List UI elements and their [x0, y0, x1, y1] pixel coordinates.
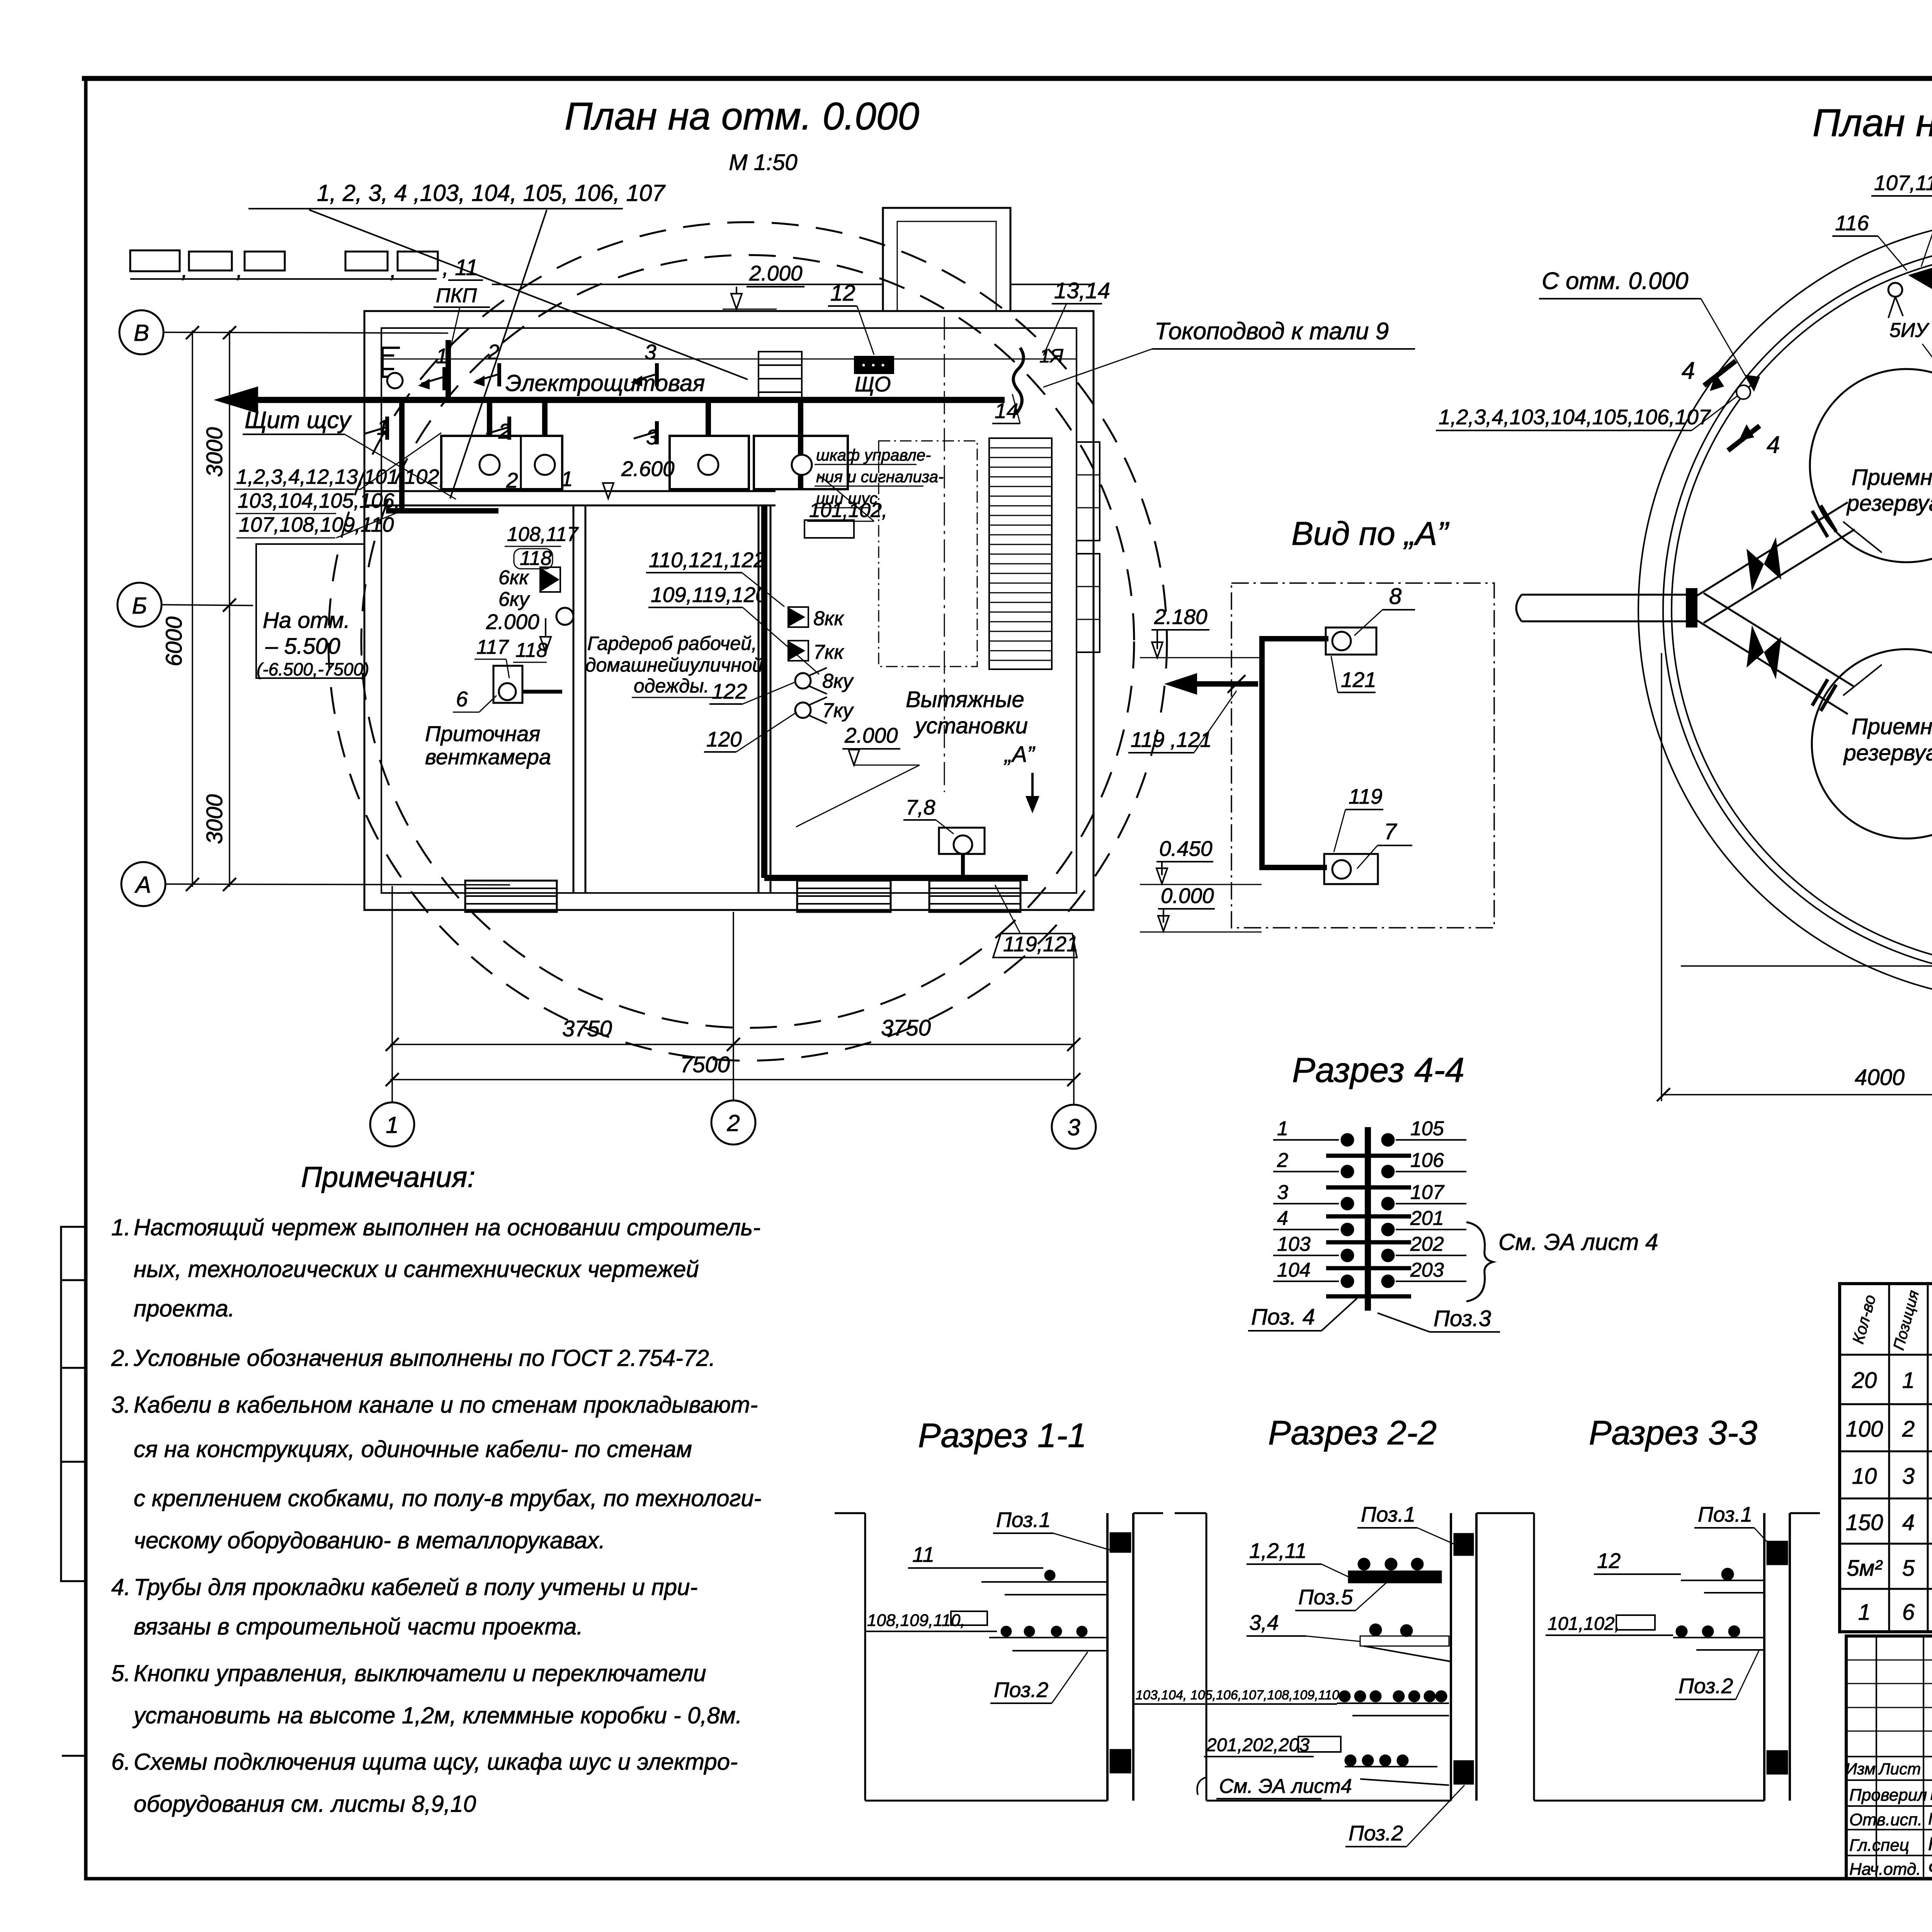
svg-text:6000: 6000 — [162, 616, 187, 666]
svg-text:2: 2 — [726, 1110, 740, 1136]
section 3-3 shelf 2 — [1673, 1637, 1764, 1638]
label ShchO panel — [855, 357, 893, 373]
svg-text:Настоящий чертеж выполнен на: Настоящий чертеж выполнен на основании с… — [134, 1214, 760, 1240]
svg-text:11: 11 — [912, 1543, 934, 1566]
svg-text:12: 12 — [1597, 1549, 1621, 1573]
flag symbols top — [1908, 267, 1932, 289]
valve to reservoir I — [1747, 537, 1781, 591]
section 1-1 wall double — [1106, 1513, 1109, 1801]
centre dash-dot line — [944, 317, 945, 792]
svg-text:4: 4 — [1767, 432, 1780, 458]
interior wall horizontal — [364, 490, 776, 492]
tray leader line — [130, 278, 437, 280]
svg-text:5: 5 — [1902, 1556, 1915, 1581]
svg-text:Щит щсу: Щит щсу — [245, 407, 352, 434]
flex conduit squiggle — [1014, 348, 1024, 413]
interior wall vertical 2 — [758, 505, 760, 893]
reservoir II circle — [1812, 649, 1932, 838]
svg-text:3,4: 3,4 — [1249, 1611, 1279, 1634]
tank ring circle — [1663, 243, 1932, 977]
svg-text:Отв.исп.: Отв.исп. — [1849, 1810, 1922, 1829]
svg-text:Фролов: Фролов — [1928, 1858, 1932, 1878]
svg-text:3: 3 — [1277, 1181, 1288, 1204]
cabinet ShUS — [754, 436, 848, 489]
svg-text:2.: 2. — [111, 1345, 131, 1371]
svg-text:121: 121 — [1341, 668, 1376, 692]
svg-text:116: 116 — [1835, 211, 1869, 235]
svg-text:10: 10 — [1852, 1464, 1877, 1489]
bottom wall window 3 — [929, 881, 1020, 912]
svg-text:В: В — [134, 320, 149, 346]
svg-text:107,116: 107,116 — [1874, 171, 1932, 195]
building outer wall — [364, 311, 1094, 910]
svg-text:Электрощитовая: Электрощитовая — [505, 370, 705, 396]
svg-text:Проверил: Проверил — [1849, 1786, 1927, 1804]
svg-text:домашнейиуличной: домашнейиуличной — [585, 654, 763, 676]
svg-text:2: 2 — [1902, 1417, 1915, 1442]
svg-text:ческому оборудованию- в мет: ческому оборудованию- в металлорукавах. — [134, 1527, 605, 1553]
svg-text:107,108,109,110: 107,108,109,110 — [239, 513, 394, 536]
svg-text:ных, технологических и сантехн: ных, технологических и сантехнических че… — [134, 1256, 699, 1282]
cable riser left down — [399, 403, 405, 511]
svg-text:203: 203 — [1410, 1259, 1444, 1281]
svg-text:1: 1 — [386, 1112, 398, 1138]
svg-text:20: 20 — [1852, 1368, 1877, 1393]
branch cross pipe 1 — [1843, 522, 1882, 553]
svg-text:4.: 4. — [111, 1574, 131, 1600]
section 1-1 shelf 1 — [981, 1581, 1107, 1583]
svg-text:4: 4 — [1682, 357, 1695, 384]
svg-text:вязаны в строительной части: вязаны в строительной части проекта. — [134, 1614, 583, 1639]
bottom wall window 2 — [797, 881, 891, 912]
interior wall vertical 1 — [573, 505, 575, 893]
svg-text:М 1:50: М 1:50 — [729, 150, 797, 175]
section 1-1 trench outline — [835, 1512, 865, 1514]
svg-text:Казаров: Казаров — [1928, 1834, 1932, 1854]
svg-text:Изм: Изм — [1845, 1760, 1876, 1778]
cable lower horizontal — [386, 508, 498, 514]
svg-text:План на отм.– 5.500 (-6.500,-7: План на отм.– 5.500 (-6.500,-7.500). — [1813, 101, 1932, 145]
inlet flange — [1687, 589, 1697, 627]
svg-text:1, 2, 3, 4 ,103, 104, 105, 106: 1, 2, 3, 4 ,103, 104, 105, 106, 107 — [317, 180, 666, 206]
svg-text:Вытяжные: Вытяжные — [906, 687, 1024, 712]
top wall band lines — [492, 284, 883, 285]
svg-text:1Я: 1Я — [1039, 345, 1064, 367]
arrow down A — [1031, 773, 1034, 806]
svg-text:Лист: Лист — [1878, 1760, 1921, 1778]
svg-text:7500: 7500 — [680, 1052, 730, 1077]
svg-text:Поз.1: Поз.1 — [996, 1508, 1051, 1532]
svg-text:установить на высоте 1,2м,: установить на высоте 1,2м, клеммные коро… — [132, 1702, 742, 1728]
svg-text:1: 1 — [436, 344, 448, 368]
tank outer circle — [1638, 218, 1932, 1002]
svg-text:Приемный: Приемный — [1852, 714, 1932, 739]
svg-text:201: 201 — [1410, 1207, 1444, 1230]
cable trays row top — [130, 250, 180, 271]
svg-text:6: 6 — [1902, 1600, 1915, 1625]
svg-text:106: 106 — [1410, 1149, 1444, 1172]
flange res II — [1812, 679, 1828, 706]
left plan dashed tank circle outer — [328, 222, 1167, 1061]
svg-text:103,104,105,106,: 103,104,105,106, — [238, 489, 400, 512]
svg-text:ния и сигнализа-: ния и сигнализа- — [816, 468, 944, 486]
svg-text:Кнопки управления, выключател: Кнопки управления, выключатели и переклю… — [134, 1660, 706, 1686]
vertical dim line inner 3000 — [229, 330, 230, 887]
section 3-3 wall blocks — [1767, 1541, 1788, 1565]
section 4-4 central bar — [1365, 1127, 1371, 1311]
stairwell platform dash-dot — [879, 441, 977, 667]
svg-text:101,102,: 101,102, — [809, 499, 887, 522]
bottom wall window 1 — [465, 881, 557, 912]
svg-text:7ку: 7ку — [822, 699, 854, 722]
svg-text:6кк: 6кк — [498, 566, 529, 589]
svg-text:201,202,203: 201,202,203 — [1206, 1735, 1310, 1755]
svg-text:С отм. 0.000: С отм. 0.000 — [1542, 268, 1689, 294]
cable riser to box 1 — [542, 403, 548, 436]
svg-text:Поз.5: Поз.5 — [1298, 1585, 1353, 1609]
svg-text:1: 1 — [1277, 1117, 1288, 1140]
wall device E symbol — [383, 348, 400, 377]
svg-text:100: 100 — [1846, 1417, 1883, 1442]
branch pipe to reservoir I — [1697, 502, 1848, 596]
right wall window — [1077, 554, 1100, 652]
axis circle B left — [117, 583, 162, 627]
switch symbols 8kk 7kk — [789, 608, 805, 626]
svg-text:8кк: 8кк — [813, 607, 844, 630]
svg-text:120: 120 — [706, 727, 742, 751]
svg-text:12: 12 — [830, 281, 855, 306]
section 2-2 outline — [1175, 1512, 1206, 1514]
svg-text:Трубы для прокладки кабелей: Трубы для прокладки кабелей в полу учтен… — [134, 1574, 697, 1600]
bottom axis circle 3 — [1052, 1105, 1096, 1149]
svg-text:Разрез 3-3: Разрез 3-3 — [1589, 1413, 1757, 1452]
svg-text:8: 8 — [1389, 584, 1401, 609]
section 3-3 shelf 1 — [1681, 1580, 1764, 1581]
svg-text:105: 105 — [1410, 1117, 1444, 1140]
svg-text:См. ЭА лист4: См. ЭА лист4 — [1219, 1775, 1352, 1798]
svg-text:Условные обозначения выполнены: Условные обозначения выполнены по ГОСТ 2… — [133, 1345, 716, 1371]
building inner wall line — [381, 328, 1077, 893]
flange res I — [1812, 511, 1828, 537]
svg-text:1: 1 — [1858, 1600, 1871, 1625]
dim extension bottom chord — [1681, 965, 1932, 967]
inlet pipe — [1522, 594, 1687, 596]
svg-text:7кк: 7кк — [813, 641, 844, 663]
svg-text:Разрез 4-4: Разрез 4-4 — [1292, 1051, 1464, 1090]
svg-text:107: 107 — [1410, 1181, 1445, 1204]
svg-text:13,14: 13,14 — [1054, 278, 1110, 303]
svg-text:1.: 1. — [111, 1214, 131, 1240]
device 101 102 box — [804, 520, 854, 538]
svg-text:См. ЭА лист 4: См. ЭА лист 4 — [1498, 1229, 1658, 1255]
wall thick cable vertical — [761, 506, 767, 878]
bottom dim line 7500 — [390, 1079, 1075, 1080]
svg-text:Поз.2: Поз.2 — [1349, 1821, 1403, 1845]
svg-text:110,121,122: 110,121,122 — [649, 548, 765, 572]
reservoir I circle — [1810, 369, 1932, 562]
svg-text:3000: 3000 — [202, 794, 227, 844]
svg-text:2.180: 2.180 — [1154, 605, 1207, 629]
axis line V — [164, 332, 448, 333]
svg-text:шкаф управле-: шкаф управле- — [816, 446, 931, 464]
svg-text:Нач.отд.: Нач.отд. — [1849, 1860, 1921, 1879]
svg-text:2.000: 2.000 — [486, 610, 539, 634]
svg-text:103,104, 105,106,107,108,109,1: 103,104, 105,106,107,108,109,110 — [1136, 1688, 1339, 1702]
title block outline — [1846, 1636, 1932, 1879]
svg-text:(-6.500,-7500): (-6.500,-7500) — [257, 659, 369, 679]
parts table outline — [1840, 1284, 1932, 1632]
title block left columns — [1876, 1636, 1877, 1879]
section 2-2 shelf 4 — [1345, 1766, 1437, 1767]
section 3-3 wall double — [1763, 1513, 1765, 1801]
svg-text:3.: 3. — [111, 1392, 131, 1418]
ladder symbol top — [759, 352, 802, 400]
leader 1 — [309, 210, 748, 379]
svg-text:1,2,3,4,12,13,101,102,: 1,2,3,4,12,13,101,102, — [236, 465, 445, 488]
left plan dashed tank circle inner — [361, 255, 1134, 1028]
svg-text:104: 104 — [1277, 1259, 1311, 1281]
branch pipe to reservoir II — [1697, 620, 1848, 714]
cable riser top wall devices — [446, 340, 451, 400]
view A box 8 — [1326, 628, 1376, 655]
svg-text:5.: 5. — [111, 1660, 131, 1686]
svg-text:108,117: 108,117 — [507, 523, 579, 546]
svg-text:Поз.2: Поз.2 — [994, 1678, 1048, 1702]
leader 2 — [450, 210, 547, 498]
svg-text:7: 7 — [1384, 819, 1398, 844]
svg-text:109,119,120: 109,119,120 — [651, 583, 767, 607]
svg-text:1,2,11: 1,2,11 — [1249, 1539, 1307, 1563]
view A cable vertical — [1259, 639, 1265, 867]
svg-text:0.450: 0.450 — [1159, 837, 1213, 861]
note box Na otm — [256, 544, 364, 678]
svg-text:5м²: 5м² — [1847, 1556, 1883, 1581]
section 2-2 shelf 2 — [1360, 1636, 1449, 1646]
fold marks on left margin — [61, 1227, 86, 1280]
svg-text:Поз.2: Поз.2 — [1679, 1674, 1733, 1698]
svg-text:1: 1 — [561, 467, 573, 491]
panel boxes 1-2 — [441, 436, 562, 489]
svg-text:3750: 3750 — [881, 1015, 931, 1041]
svg-text:3: 3 — [1902, 1464, 1915, 1489]
svg-text:ЩО: ЩО — [855, 372, 891, 396]
svg-text:150: 150 — [1846, 1510, 1883, 1535]
svg-text:оборудования см. листы 8,9,: оборудования см. листы 8,9,10 — [134, 1791, 476, 1817]
svg-text:Приемный: Приемный — [1852, 465, 1932, 490]
device box 7 8 — [939, 828, 985, 854]
svg-text:с креплением скобками, по полу: с креплением скобками, по полу-в трубах,… — [134, 1485, 762, 1511]
section 2-2 wall double — [1450, 1513, 1452, 1801]
svg-text:2.600: 2.600 — [621, 457, 675, 481]
svg-text:Гардероб рабочей,: Гардероб рабочей, — [587, 633, 757, 654]
svg-text:Гл.спец: Гл.спец — [1849, 1836, 1909, 1855]
svg-text:103: 103 — [1277, 1233, 1311, 1255]
section 4-4 brace — [1466, 1222, 1493, 1301]
svg-text:Разрез 1-1: Разрез 1-1 — [918, 1416, 1087, 1454]
svg-text:118: 118 — [515, 639, 548, 662]
svg-text:Схемы подключения щита щсу,: Схемы подключения щита щсу, шкафа шус и … — [134, 1749, 738, 1775]
svg-text:119: 119 — [1349, 784, 1383, 808]
valve to reservoir II — [1747, 625, 1781, 679]
panel box 11 — [670, 436, 749, 489]
switch symbols 8ku 7ku — [795, 673, 811, 689]
cable riser to box 2 — [487, 403, 492, 436]
right wall window 2 — [1077, 442, 1100, 541]
tank wall inner circle — [1672, 251, 1932, 968]
svg-text:2: 2 — [1277, 1149, 1288, 1172]
svg-text:Б: Б — [132, 593, 147, 619]
svg-text:2: 2 — [487, 340, 500, 364]
svg-text:3: 3 — [1067, 1114, 1080, 1140]
svg-text:3000: 3000 — [202, 427, 227, 477]
svg-text:ПКП: ПКП — [436, 284, 477, 307]
stairs treads — [989, 438, 1052, 669]
svg-text:Разрез 2-2: Разрез 2-2 — [1268, 1413, 1437, 1452]
svg-text:4: 4 — [1902, 1510, 1915, 1535]
svg-text:На отм.: На отм. — [263, 608, 350, 633]
section 1-1 wall blocks — [1110, 1532, 1131, 1553]
bottom dim line 3750 — [390, 1044, 1075, 1045]
axis circle A left — [121, 862, 165, 906]
svg-text:101,102,: 101,102, — [1548, 1614, 1620, 1634]
svg-text:6ку: 6ку — [498, 588, 530, 611]
svg-text:202: 202 — [1410, 1233, 1444, 1255]
view A cable bottom horizontal — [1259, 865, 1327, 870]
extension lines right plan bottom — [1661, 653, 1662, 1101]
cable riser to ShUS — [798, 403, 803, 490]
svg-text:– 5.500: – 5.500 — [265, 634, 340, 659]
svg-text:„А”: „А” — [1003, 742, 1036, 767]
section 3-3 outline — [1503, 1512, 1534, 1514]
stair shaft protrusion top — [883, 208, 1010, 311]
svg-text:Приточная: Приточная — [425, 721, 540, 746]
section 2-2 shelf 3 — [1337, 1702, 1449, 1704]
svg-text:6: 6 — [456, 687, 468, 711]
svg-text:План на отм. 0.000: План на отм. 0.000 — [565, 95, 919, 138]
view A dash-dot boundary — [1231, 583, 1494, 928]
svg-text:4000: 4000 — [1855, 1065, 1905, 1090]
svg-text:Примечания:: Примечания: — [301, 1161, 475, 1193]
svg-text:А: А — [134, 872, 151, 898]
section 2-2 wall blocks — [1454, 1533, 1474, 1556]
section 2-2 shelf 1 hatched — [1349, 1571, 1441, 1583]
svg-text:Поз.3: Поз.3 — [1434, 1306, 1491, 1331]
svg-text:проекта.: проекта. — [134, 1296, 235, 1321]
svg-text:2.000: 2.000 — [749, 261, 803, 285]
svg-text:резервуар II: резервуар II — [1843, 740, 1932, 765]
svg-text:2: 2 — [506, 468, 518, 492]
svg-text:Поз.1: Поз.1 — [1698, 1502, 1752, 1526]
view A box 7 — [1324, 854, 1378, 884]
svg-text:1,2,3,4,103,104,105,106,107: 1,2,3,4,103,104,105,106,107 — [1439, 405, 1711, 429]
svg-text:Поз. 4: Поз. 4 — [1251, 1304, 1315, 1330]
svg-text:6.: 6. — [111, 1749, 131, 1775]
branch cross pipe 2 — [1843, 665, 1882, 696]
svg-text:1: 1 — [1902, 1368, 1915, 1393]
svg-text:резервуар I: резервуар I — [1846, 491, 1932, 516]
svg-text:3750: 3750 — [562, 1016, 612, 1041]
device box 6 — [493, 666, 522, 703]
wall thick cable bottom horizontal — [764, 875, 1028, 881]
svg-text:7,8: 7,8 — [906, 795, 935, 819]
svg-text:Кабели в кабельном канале и по: Кабели в кабельном канале и по стенам пр… — [134, 1392, 758, 1418]
svg-text:Токоподвод к тали 9: Токоподвод к тали 9 — [1155, 318, 1389, 345]
svg-text:Поз.1: Поз.1 — [1361, 1502, 1415, 1526]
svg-text:одежды.: одежды. — [634, 675, 709, 697]
bottom dims right plan — [1662, 1094, 1932, 1095]
main cable feeder thick line — [255, 397, 1005, 403]
view A cable top horizontal — [1259, 636, 1328, 641]
feeder arrowhead — [214, 386, 258, 413]
svg-text:0.000: 0.000 — [1161, 884, 1214, 908]
axis circle V — [119, 310, 163, 354]
section 1-1 shelf 2 — [989, 1637, 1107, 1638]
svg-text:ся на конструкциях, одиночн: ся на конструкциях, одиночные кабели- по… — [134, 1436, 692, 1462]
svg-text:Мизяк: Мизяк — [1930, 1784, 1932, 1804]
svg-text:венткамера: венткамера — [425, 745, 551, 769]
svg-text:8ку: 8ку — [822, 670, 854, 692]
svg-text:5ИУ: 5ИУ — [1889, 319, 1930, 342]
view A arrow left — [1175, 681, 1258, 687]
svg-text:2.000: 2.000 — [844, 723, 898, 747]
bottom axis circle 1 — [370, 1102, 414, 1146]
vertical dim line outer 6000 — [192, 330, 193, 887]
svg-text:119 ,121: 119 ,121 — [1131, 728, 1212, 752]
svg-text:Пономарева: Пономарева — [1928, 1810, 1932, 1828]
svg-text:Вид по „А”: Вид по „А” — [1291, 515, 1449, 552]
bottom axis circle 2 — [711, 1100, 755, 1145]
svg-text:119,121: 119,121 — [1003, 932, 1078, 956]
svg-text:122: 122 — [712, 679, 747, 703]
svg-text:117: 117 — [476, 636, 509, 658]
svg-text:4: 4 — [1277, 1207, 1288, 1230]
svg-text:установки: установки — [913, 713, 1028, 738]
cable riser to box group right — [706, 403, 711, 436]
